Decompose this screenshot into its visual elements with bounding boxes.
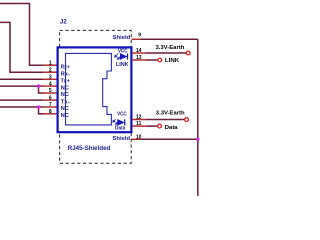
svg-text:1: 1 — [49, 60, 52, 66]
LED Data symbol — [113, 119, 125, 125]
svg-text:Rx+: Rx+ — [61, 64, 71, 70]
port circle LINK — [158, 58, 162, 62]
pin 12 stub — [132, 119, 147, 121]
junction dot shield rail — [196, 138, 199, 141]
svg-text:Rx-: Rx- — [61, 71, 70, 77]
port circle 3.3V-Earth (top) — [186, 51, 190, 55]
pin 5 stub — [43, 92, 58, 94]
wire shield right vertical rail — [197, 39, 199, 196]
connector J2 blue body rectangle — [58, 47, 132, 132]
svg-text:3: 3 — [49, 75, 52, 81]
pin 7 stub — [43, 106, 58, 108]
svg-text:NC: NC — [61, 85, 70, 91]
svg-text:Shield: Shield — [113, 35, 131, 41]
port circle Data — [158, 124, 162, 128]
svg-text:7: 7 — [49, 102, 52, 108]
wire pin12 to 3.3V-Earth port (bottom) — [147, 119, 185, 121]
pin 6 stub — [43, 99, 58, 101]
svg-text:9: 9 — [138, 33, 141, 39]
pin 14 stub — [132, 52, 147, 54]
svg-text:5: 5 — [49, 88, 52, 94]
pin 4 stub — [43, 85, 58, 87]
wire pin13 to LINK port — [147, 59, 158, 61]
junction dot at pin7 branch — [37, 105, 40, 108]
wire shield net pin 10 to right rail — [141, 138, 198, 140]
svg-text:8: 8 — [49, 109, 52, 115]
wire shield net from pin 9 to right rail — [141, 38, 198, 40]
wire pin11 to Data port — [147, 125, 158, 127]
svg-text:13: 13 — [136, 55, 142, 61]
pin 13 stub — [132, 59, 147, 61]
LED LINK symbol — [115, 53, 128, 59]
port circle 3.3V-Earth (bottom) — [185, 118, 189, 122]
svg-text:3.3V-Earth: 3.3V-Earth — [156, 111, 185, 117]
pin 10 stub — [132, 138, 142, 140]
pin 11 stub — [132, 125, 147, 127]
svg-text:10: 10 — [136, 134, 142, 140]
junction dot at pin4 branch — [37, 84, 40, 87]
svg-text:2: 2 — [49, 67, 52, 73]
pin 2 stub — [43, 71, 58, 73]
svg-text:Shield: Shield — [112, 136, 130, 142]
svg-text:NC: NC — [61, 92, 70, 98]
pin 1 stub — [43, 64, 58, 66]
svg-text:VCC: VCC — [117, 112, 127, 118]
svg-text:11: 11 — [136, 121, 142, 127]
svg-text:3.3V-Earth: 3.3V-Earth — [156, 45, 185, 51]
RJ45 socket inner outline — [66, 53, 112, 125]
pin 8 stub — [43, 113, 58, 115]
svg-text:VCC: VCC — [118, 48, 128, 54]
svg-text:LINK: LINK — [165, 58, 180, 64]
dashed component boundary box — [60, 30, 132, 163]
wire net to pin 7 — [0, 106, 43, 108]
pin 9 stub — [132, 38, 142, 40]
svg-text:12: 12 — [136, 115, 142, 121]
wire pin14 to 3.3V-Earth port — [147, 52, 187, 54]
svg-text:LINK: LINK — [116, 62, 129, 68]
svg-text:Data: Data — [165, 125, 179, 131]
wire branch to pin 8 — [39, 107, 44, 114]
svg-text:6: 6 — [49, 95, 52, 101]
svg-text:4: 4 — [49, 81, 52, 87]
wire net to pin 3 — [0, 78, 43, 80]
wire net to pin 6 — [0, 99, 43, 101]
wire branch to pin 5 — [39, 86, 44, 93]
wire net to pin 1 (top-left corner wire) — [0, 4, 43, 66]
svg-text:NC: NC — [61, 113, 70, 119]
svg-text:J2: J2 — [60, 20, 67, 26]
svg-text:NC: NC — [61, 106, 70, 112]
svg-text:Data: Data — [115, 126, 126, 132]
wire net to pin 4 — [0, 85, 43, 87]
svg-text:14: 14 — [136, 48, 142, 54]
svg-text:RJ45-Shielded: RJ45-Shielded — [68, 145, 111, 152]
wire net to pin 2 — [0, 22, 43, 72]
svg-text:Tx+: Tx+ — [61, 79, 71, 85]
svg-text:Tx-: Tx- — [61, 99, 70, 105]
pin 3 stub — [43, 78, 58, 80]
